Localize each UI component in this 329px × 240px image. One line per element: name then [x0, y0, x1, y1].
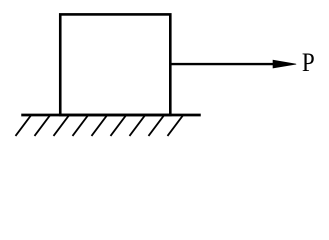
- ground line: [21, 114, 201, 117]
- force arrow P: [170, 63, 278, 65]
- hatching: [16, 116, 183, 136]
- svg-text:P: P: [302, 49, 315, 78]
- block (rectangle): [60, 14, 170, 115]
